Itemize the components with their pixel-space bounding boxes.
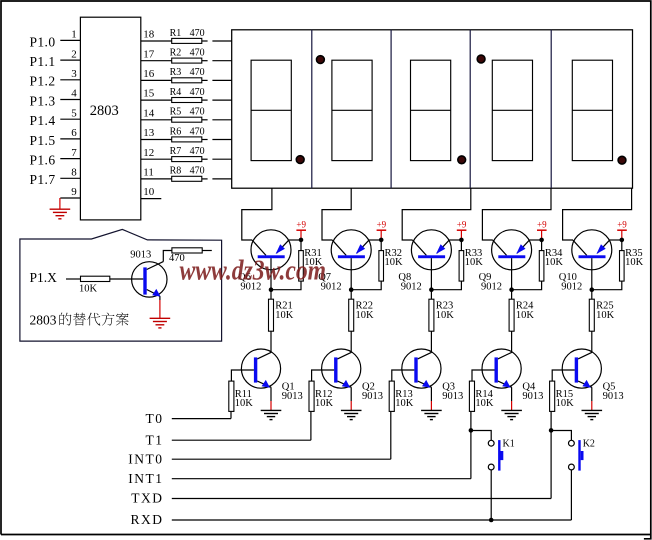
wire INT1: [172, 478, 471, 480]
junction K1/RXD: [489, 518, 494, 523]
resistor R11 10K: [229, 381, 254, 411]
wire INT1 to R14/K1: [470, 411, 472, 478]
svg-text:9012: 9012: [561, 282, 582, 293]
wire TXD: [172, 498, 551, 500]
svg-text:16: 16: [143, 68, 155, 80]
junction +9/R33/Q8: [459, 238, 464, 243]
wire junction to R24: [511, 290, 513, 300]
svg-text:10K: 10K: [436, 310, 455, 321]
wire +9 node to R34: [541, 240, 543, 251]
power +9 flag column 3: [457, 220, 467, 239]
transistor Q4 9013: [482, 349, 543, 402]
junction +9/R34/Q9: [539, 238, 544, 243]
wire Q4 emitter to ground: [511, 387, 513, 401]
resistor R8 470: [170, 166, 205, 182]
wire R2 to display: [202, 60, 208, 62]
junction +9/R35/Q10: [620, 238, 625, 243]
ground (callout): [150, 318, 171, 328]
wire P1.0 to pin 1: [60, 39, 80, 41]
junction K1 top: [469, 428, 474, 433]
svg-text:P1.6: P1.6: [30, 153, 56, 168]
resistor R12 10K: [309, 381, 334, 411]
transistor Q10 9012: [559, 230, 612, 293]
wire Q7 emitter to +9 node: [369, 239, 382, 241]
svg-text:12: 12: [143, 147, 154, 159]
svg-text:T0: T0: [146, 411, 164, 426]
wire P1.2 to pin 3: [60, 79, 80, 81]
wire pin 16 to R3: [141, 79, 172, 81]
power +9 flag column 1: [296, 220, 306, 239]
IC U1 2803: [80, 17, 140, 220]
display DS5 segments: [572, 60, 612, 160]
svg-text:P1.7: P1.7: [30, 172, 56, 187]
wire junction to K2: [551, 431, 571, 441]
wire P1.X to R 10K: [66, 278, 81, 280]
wire Q9 base down: [511, 258, 513, 290]
wire T1 to R12: [310, 411, 312, 440]
svg-text:1: 1: [71, 29, 77, 41]
svg-text:+9: +9: [296, 220, 306, 230]
wire Q1 emitter to ground: [270, 387, 272, 401]
switch K1: [488, 438, 514, 470]
wire T0 to R11: [230, 411, 232, 418]
resistor R5 470: [170, 107, 205, 123]
svg-text:470: 470: [190, 107, 205, 118]
switch K2: [569, 438, 595, 470]
svg-text:13: 13: [143, 127, 155, 139]
resistor R1 470: [170, 28, 205, 44]
transistor 9013 (callout): [130, 250, 167, 297]
wire Q2 emitter to ground: [350, 387, 352, 401]
wire P1.6 to pin 7: [60, 158, 80, 160]
wire Q3 emitter to ground: [430, 387, 432, 401]
svg-text:10K: 10K: [545, 257, 564, 268]
junction Q10 base/R25/R35: [590, 287, 595, 292]
junction Q8 base/R23/R33: [429, 287, 434, 292]
svg-text:10K: 10K: [356, 310, 375, 321]
wire P1.3 to pin 4: [60, 99, 80, 101]
svg-text:+9: +9: [617, 220, 627, 230]
svg-text:9013: 9013: [603, 391, 624, 402]
wire P1.7 to pin 8: [60, 177, 80, 179]
svg-text:470: 470: [190, 166, 205, 177]
resistor R35 10K: [620, 248, 644, 281]
wire pin 13 to R6: [141, 139, 172, 141]
svg-text:470: 470: [190, 87, 205, 98]
svg-text:10K: 10K: [275, 310, 294, 321]
svg-text:14: 14: [143, 107, 155, 119]
display DS4 decimal point: [477, 55, 485, 63]
wire P1.1 to pin 2: [60, 59, 80, 61]
wire R31 to base junction: [271, 281, 301, 290]
transistor Q9 9012: [479, 230, 532, 293]
svg-text:P1.3: P1.3: [30, 93, 56, 108]
svg-text:R6: R6: [170, 126, 182, 137]
svg-text:INT1: INT1: [128, 471, 163, 486]
svg-text:10K: 10K: [395, 398, 414, 409]
junction Q9 base/R24/R34: [509, 287, 514, 292]
ground Q1 emitter: [261, 410, 282, 419]
svg-text:470: 470: [190, 28, 205, 39]
wire display DS5 common to Q10 collector: [563, 188, 632, 240]
wire P1.4 to pin 5: [60, 118, 80, 120]
svg-text:3: 3: [71, 68, 77, 80]
svg-text:P1.4: P1.4: [30, 113, 56, 128]
wire Q10 emitter to +9 node: [610, 239, 623, 241]
wire display separator 4: [550, 30, 552, 188]
resistor R25 10K: [589, 299, 614, 331]
wire 470 output: [202, 250, 212, 252]
resistor R31 10K: [299, 248, 323, 281]
wire R6 to display: [202, 139, 208, 141]
svg-text:10K: 10K: [235, 398, 254, 409]
wire T0: [172, 418, 231, 420]
wire R23 to Q3 collector: [430, 331, 432, 352]
wire INT0: [172, 458, 391, 460]
transistor Q5 9013: [562, 349, 623, 402]
wire display separator 2: [390, 30, 392, 188]
transistor Q1 9013: [241, 349, 302, 402]
ground Q3 emitter: [421, 410, 442, 419]
power +9 flag column 5: [617, 220, 627, 239]
wire R25 to Q5 collector: [591, 331, 593, 352]
wire display separator 3: [469, 30, 471, 188]
svg-text:R2: R2: [170, 48, 182, 59]
resistor R14 10K: [469, 381, 494, 411]
wire R32 to base junction: [351, 281, 381, 290]
resistor R3 470: [170, 67, 205, 83]
svg-text:5: 5: [71, 107, 77, 119]
svg-text:+9: +9: [457, 220, 467, 230]
svg-text:9013: 9013: [522, 391, 543, 402]
svg-text:15: 15: [143, 88, 155, 100]
resistor R15 10K: [550, 381, 575, 411]
junction Q6 base/R21/R31: [269, 287, 274, 292]
display DS3 segments: [411, 60, 451, 160]
wire R4 to display: [202, 99, 208, 101]
wire collector to 470: [163, 251, 172, 262]
wire pin 12 to R7: [141, 158, 172, 160]
resistor R32 10K: [379, 248, 403, 281]
wire display DS2 common to Q7 collector: [322, 188, 351, 240]
svg-text:P1.5: P1.5: [30, 133, 56, 148]
wire Q8 base down: [430, 258, 432, 290]
svg-text:R5: R5: [170, 107, 182, 118]
wire R22 to Q2 collector: [350, 331, 352, 352]
wire Q4 base to R14: [472, 370, 495, 381]
ground Q4 emitter: [501, 410, 522, 419]
svg-text:www.dz3w.com: www.dz3w.com: [180, 256, 327, 287]
transistor Q2 9013: [322, 349, 383, 402]
svg-text:8: 8: [71, 167, 77, 179]
wire pin 15 to R4: [141, 99, 172, 101]
svg-text:+9: +9: [537, 220, 547, 230]
svg-text:470: 470: [190, 126, 205, 137]
resistor R13 10K: [389, 381, 414, 411]
junction Q7 base/R22/R32: [349, 287, 354, 292]
wire Q10 base down: [591, 258, 593, 290]
wire display separator 1: [311, 30, 313, 188]
svg-text:P1.1: P1.1: [30, 54, 56, 69]
wire K1 bottom to RXD: [490, 470, 492, 520]
wire Q5 emitter to ground: [591, 387, 593, 401]
svg-text:9013: 9013: [130, 250, 151, 261]
wire T1: [172, 439, 311, 441]
svg-text:2803: 2803: [90, 103, 119, 119]
wire Q6 emitter to +9 node: [289, 239, 302, 241]
svg-text:10K: 10K: [385, 257, 404, 268]
svg-text:+9: +9: [377, 220, 387, 230]
svg-text:2: 2: [71, 48, 77, 60]
svg-text:10K: 10K: [465, 257, 484, 268]
svg-text:6: 6: [71, 127, 77, 139]
wire R34 to base junction: [512, 281, 542, 290]
svg-text:10K: 10K: [79, 284, 98, 295]
svg-text:T1: T1: [146, 432, 164, 447]
svg-text:INT0: INT0: [128, 451, 163, 466]
junction +9/R31/Q6: [299, 238, 304, 243]
resistor R4 470: [170, 87, 205, 103]
junction K2 top: [549, 428, 554, 433]
svg-text:10K: 10K: [596, 310, 615, 321]
wire +9 node to R33: [460, 240, 462, 251]
svg-text:RXD: RXD: [130, 512, 163, 527]
svg-text:9013: 9013: [442, 391, 463, 402]
wire pin 11 to R8: [141, 178, 172, 180]
wire junction to K1: [471, 431, 491, 441]
svg-text:R1: R1: [170, 28, 182, 39]
display DS5 decimal point: [618, 156, 626, 164]
resistor R24 10K: [509, 299, 534, 331]
wire pin 10 stub: [141, 198, 162, 200]
wire junction to R22: [350, 290, 352, 300]
svg-text:470: 470: [190, 67, 205, 78]
svg-text:18: 18: [143, 29, 155, 41]
wire Q7 base down: [350, 258, 352, 290]
resistor 470 (callout): [169, 248, 202, 264]
svg-text:10K: 10K: [315, 398, 334, 409]
display DS2 decimal point: [317, 56, 325, 64]
svg-text:9012: 9012: [481, 282, 502, 293]
junction +9/R32/Q7: [379, 238, 384, 243]
svg-text:470: 470: [190, 48, 205, 59]
resistor R23 10K: [429, 299, 454, 331]
wire R7 to display: [202, 158, 208, 160]
svg-text:10: 10: [143, 186, 155, 198]
display DS4 segments: [492, 60, 532, 160]
wire 10K to base: [110, 278, 144, 280]
wire R35 to base junction: [592, 281, 622, 290]
wire R3 to display: [202, 79, 208, 81]
wire Q6 base down: [270, 258, 272, 290]
callout box 2803 alternative: [20, 229, 222, 341]
svg-text:7: 7: [71, 147, 77, 159]
svg-text:9013: 9013: [362, 391, 383, 402]
wire pin 14 to R5: [141, 119, 172, 121]
wire Q5 base to R15: [552, 370, 575, 381]
svg-text:R4: R4: [170, 87, 182, 98]
resistor R34 10K: [539, 248, 563, 281]
wire R1 to display: [202, 40, 208, 42]
resistor R7 470: [170, 146, 205, 162]
svg-text:9: 9: [71, 186, 77, 198]
svg-text:17: 17: [143, 48, 155, 60]
display DS2 segments: [332, 60, 372, 160]
resistor R22 10K: [349, 299, 374, 331]
wire Q8 emitter to +9 node: [449, 239, 462, 241]
wire Q3 base to R13: [392, 370, 415, 381]
display DS3 decimal point: [458, 156, 466, 164]
transistor Q8 9012: [398, 230, 451, 293]
wire junction to R21: [270, 290, 272, 300]
ground Q5 emitter: [582, 410, 603, 419]
svg-text:4: 4: [71, 88, 77, 100]
wire Q9 emitter to +9 node: [529, 239, 542, 241]
wire Q2 base to R12: [312, 370, 335, 381]
svg-text:10K: 10K: [516, 310, 535, 321]
resistor R2 470: [170, 48, 205, 64]
svg-text:470: 470: [190, 146, 205, 157]
svg-text:P1.0: P1.0: [30, 34, 56, 49]
resistor 10K (callout): [79, 276, 110, 294]
svg-text:10K: 10K: [475, 398, 494, 409]
svg-text:10K: 10K: [556, 398, 575, 409]
svg-text:10K: 10K: [625, 257, 644, 268]
wire R5 to display: [202, 119, 208, 121]
wire junction to R23: [430, 290, 432, 300]
wire +9 node to R35: [621, 240, 623, 251]
wire R8 to display: [202, 178, 208, 180]
wire display DS4 common to Q9 collector: [482, 188, 551, 240]
wire RXD: [172, 519, 572, 521]
display DS1 segments: [251, 60, 291, 160]
svg-text:9012: 9012: [401, 282, 422, 293]
wire +9 node to R32: [380, 240, 382, 251]
ground IC pin 9: [50, 209, 71, 219]
svg-text:P1.X: P1.X: [30, 270, 58, 285]
transistor Q6 9012: [238, 230, 291, 293]
display block DS1-DS5: [232, 30, 633, 188]
wire pin 17 to R2: [141, 60, 172, 62]
svg-text:11: 11: [143, 167, 154, 179]
wire emitter to ground (callout): [159, 296, 161, 300]
resistor R33 10K: [459, 248, 483, 281]
wire Q1 base to R11: [231, 370, 254, 381]
wire display DS1 common to Q6 collector: [242, 188, 272, 240]
wire TXD to R15/K2: [550, 411, 552, 498]
ground Q2 emitter: [341, 410, 362, 419]
svg-text:R8: R8: [170, 166, 182, 177]
transistor Q7 9012: [318, 230, 371, 293]
resistor R21 10K: [269, 299, 294, 331]
wire pin 9 to ground: [60, 197, 80, 199]
svg-text:K1: K1: [503, 438, 515, 449]
wire INT0 to R13: [390, 411, 392, 459]
wire +9 node to R31: [300, 240, 302, 251]
transistor Q3 9013: [402, 349, 463, 402]
svg-text:9013: 9013: [282, 391, 303, 402]
svg-text:K2: K2: [583, 438, 595, 449]
svg-text:TXD: TXD: [131, 491, 163, 506]
svg-text:R7: R7: [170, 146, 182, 157]
wire R24 to Q4 collector: [511, 331, 513, 352]
power +9 flag column 2: [377, 220, 387, 239]
display DS1 decimal point: [296, 156, 304, 164]
svg-text:2803: 2803: [30, 313, 57, 328]
svg-text:R3: R3: [170, 67, 182, 78]
wire display DS3 common to Q8 collector: [402, 188, 471, 240]
wire pin 18 to R1: [141, 40, 172, 42]
wire K2 bottom to RXD: [570, 470, 572, 520]
wire R21 to Q1 collector: [270, 331, 272, 352]
wire P1.5 to pin 6: [60, 138, 80, 140]
svg-text:P1.2: P1.2: [30, 74, 56, 89]
power +9 flag column 4: [537, 220, 547, 239]
resistor R6 470: [170, 126, 205, 142]
wire junction to R25: [591, 290, 593, 300]
wire R33 to base junction: [431, 281, 461, 290]
